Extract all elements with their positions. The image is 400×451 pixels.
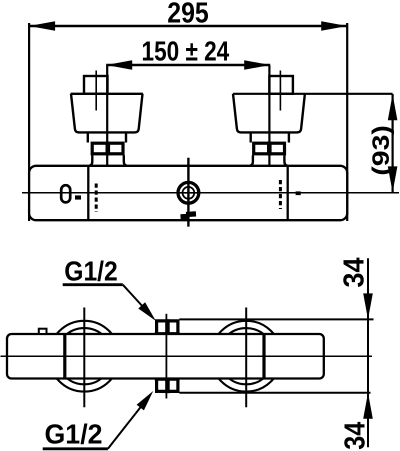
G1/2 top leader arrowhead: [138, 302, 156, 321]
dimension 295 left arrowhead: [29, 21, 55, 31]
right handle knob sides and bottom: [233, 94, 305, 133]
right hidden screw line: [279, 180, 282, 209]
svg-text:34: 34: [339, 422, 371, 450]
dimension 295 line: [29, 25, 347, 27]
outlet outer circle: [178, 182, 199, 203]
svg-text:34: 34: [338, 258, 370, 288]
left handle stem centerline: [95, 71, 97, 111]
plan view left valve inner circle: [56, 328, 112, 384]
left neck upper left line: [87, 132, 89, 142]
left hidden screw line: [95, 184, 98, 213]
dimension 295 right arrowhead: [321, 21, 347, 31]
dimension 34 bottom arrowhead: [363, 393, 373, 419]
right neck upper left line: [249, 132, 251, 142]
dimension 150±24 line: [106, 64, 270, 66]
G1/2 top leader line: [123, 285, 150, 315]
plan view right valve inner circle: [218, 328, 274, 384]
left neck lower right line: [124, 155, 127, 165]
G1/2 bottom leader arrowhead: [137, 391, 154, 410]
dimension 34 top extension line: [179, 318, 373, 320]
body internal line left: [87, 166, 89, 220]
left neck nut: [92, 143, 123, 154]
G1/2 bottom underline: [43, 447, 108, 450]
bottom inlet nut: [157, 380, 178, 392]
inlet fitting centerline: [165, 314, 167, 399]
dimension 34 line: [367, 258, 369, 447]
outlet crosshair horizontal: [178, 192, 199, 194]
(93) top arrowhead: [388, 94, 398, 120]
outlet inner circle: [183, 187, 195, 199]
dimension 150±24 right arrowhead: [244, 60, 270, 70]
left handle stem: [84, 76, 108, 94]
plan view body bar: [7, 334, 324, 379]
dimension 34 bottom extension line: [179, 392, 370, 394]
plan view right valve outer circle: [211, 321, 282, 392]
plan view left valve centerline: [83, 308, 85, 408]
svg-text:(93): (93): [368, 125, 395, 176]
svg-text:G1/2: G1/2: [45, 418, 103, 449]
right handle stem: [269, 76, 293, 94]
top inlet nut: [157, 321, 178, 334]
outlet tick mark below: [181, 214, 197, 217]
right neck nut divider: [267, 142, 272, 156]
left neck upper right line: [125, 132, 127, 142]
bottom inlet nut divider: [165, 379, 170, 393]
right handle axis line: [268, 65, 270, 178]
(93) bottom arrowhead: [388, 166, 398, 192]
plan view right joint line: [262, 334, 265, 379]
mixer body bar front view: [29, 166, 347, 220]
outlet vertical centerline: [187, 158, 189, 227]
bottom inlet nut top edge: [155, 379, 180, 381]
plan view button bump: [39, 329, 47, 334]
top inlet nut divider: [165, 319, 170, 333]
temperature dash mark left: [75, 195, 81, 199]
body horizontal centerline: [22, 192, 399, 194]
right handle knob top edge plus (93) extension line: [233, 93, 393, 95]
svg-text:295: 295: [167, 0, 209, 30]
body internal line right: [287, 166, 289, 220]
dimension 295 extension line right: [346, 23, 348, 221]
plan view left valve outer circle: [49, 321, 120, 392]
dimension 295 extension line left: [28, 23, 30, 221]
dimension 150±24 left arrowhead: [106, 60, 132, 70]
right neck upper right line: [288, 132, 290, 142]
flow dash mark right: [296, 191, 301, 195]
top inlet nut bottom edge: [155, 332, 180, 334]
plan view left joint line: [63, 334, 66, 379]
right handle stem centerline: [279, 71, 281, 111]
(93) dimension line: [392, 94, 394, 193]
left handle knob sides and bottom: [71, 94, 143, 133]
dimension 34 top arrowhead: [363, 293, 373, 319]
left handle knob top edge: [71, 93, 143, 95]
svg-text:150 ± 24: 150 ± 24: [142, 36, 230, 67]
left handle axis line: [106, 65, 108, 178]
right neck lower left line: [250, 155, 253, 165]
right neck lower right line: [284, 155, 287, 165]
G1/2 bottom leader line: [108, 400, 146, 449]
plan view horizontal centerline: [1, 355, 373, 357]
plan view right valve centerline: [245, 308, 247, 408]
G1/2 top underline: [63, 283, 123, 286]
right neck nut: [254, 143, 285, 154]
temperature ring mark 0: [61, 185, 70, 202]
svg-text:G1/2: G1/2: [64, 256, 118, 287]
left neck lower left line: [89, 155, 92, 165]
left neck nut divider: [106, 142, 111, 156]
